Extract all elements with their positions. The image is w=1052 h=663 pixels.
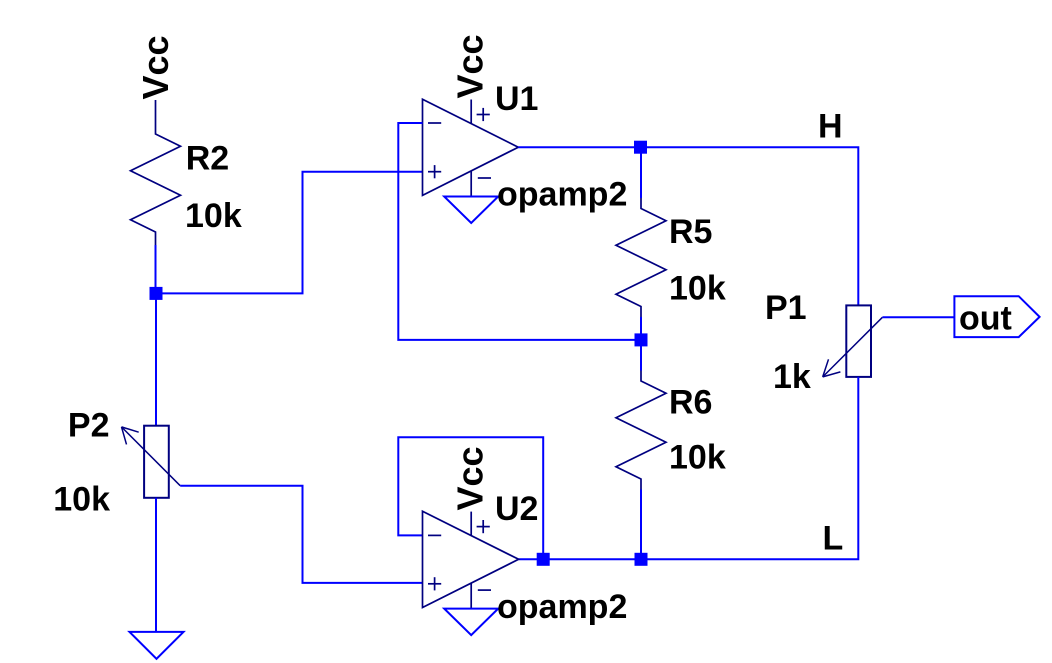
potentiometer P1 <box>823 305 883 377</box>
svg-text:R6: R6 <box>669 384 712 422</box>
svg-text:P2: P2 <box>68 407 110 445</box>
svg-text:U2: U2 <box>495 490 538 528</box>
svg-text:R2: R2 <box>186 140 229 178</box>
node U1 output <box>634 141 647 154</box>
svg-text:opamp2: opamp2 <box>497 588 627 626</box>
ground (under U1) <box>444 197 498 224</box>
ground (under U2) <box>444 609 498 636</box>
wire node A to P2 top <box>155 293 157 426</box>
wire P1 wiper to out flag <box>882 316 954 318</box>
svg-text:out: out <box>959 299 1012 337</box>
svg-text:10k: 10k <box>185 197 242 235</box>
svg-text:10k: 10k <box>53 481 110 519</box>
resistor R6 <box>616 371 666 490</box>
node R5/R6 midpoint <box>635 333 648 346</box>
wire P2 bottom to ground <box>155 498 157 632</box>
op-amp U1 <box>423 99 519 196</box>
node A (R2/P2 junction) <box>150 287 163 300</box>
svg-text:U1: U1 <box>495 80 538 118</box>
wire P1 bottom to L net <box>641 377 858 559</box>
node R6/L junction <box>635 553 648 566</box>
potentiometer P2 <box>122 426 181 498</box>
wire R2 bottom to node <box>155 245 157 293</box>
resistor R5 <box>616 198 666 317</box>
node U2 output <box>537 553 550 566</box>
svg-text:10k: 10k <box>669 270 726 308</box>
resistor R2 <box>131 100 181 245</box>
svg-text:R5: R5 <box>669 213 712 251</box>
output flag out <box>954 296 1039 337</box>
svg-text:Vcc: Vcc <box>450 446 491 510</box>
wire U2 feedback loop <box>398 437 543 559</box>
wire U1 feedback (inverting input to R5/R6 midpoint) <box>398 123 641 340</box>
svg-text:L: L <box>823 520 844 558</box>
wire H net: node to P1 top <box>641 147 858 305</box>
svg-text:opamp2: opamp2 <box>497 176 627 214</box>
wire U2 output to L node <box>519 558 641 560</box>
wire R6 to L node <box>640 490 642 560</box>
wire R5 to midpoint node <box>640 317 642 340</box>
wire P2 wiper to U2 non-inverting input <box>180 486 422 583</box>
svg-text:Vcc: Vcc <box>135 35 176 99</box>
ground (bottom left) <box>130 632 184 659</box>
wire U1 output to node <box>518 146 641 148</box>
wire midpoint node to R6 <box>640 340 642 371</box>
svg-text:P1: P1 <box>765 289 807 327</box>
svg-text:10k: 10k <box>669 439 726 477</box>
svg-text:1k: 1k <box>773 358 811 396</box>
wire node to R5 <box>640 147 642 198</box>
op-amp U2 <box>423 511 519 608</box>
svg-text:Vcc: Vcc <box>450 34 491 98</box>
svg-text:H: H <box>818 108 843 146</box>
wire node A to U1 non-inverting input <box>156 172 423 294</box>
